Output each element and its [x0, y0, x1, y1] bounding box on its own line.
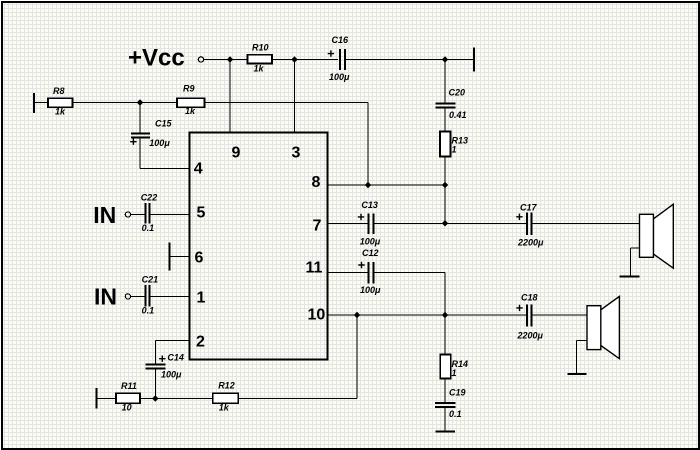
svg-text:0.1: 0.1: [449, 409, 462, 419]
svg-text:0.41: 0.41: [449, 110, 467, 120]
svg-text:10: 10: [122, 402, 132, 412]
svg-text:1k: 1k: [185, 106, 196, 116]
svg-text:100μ: 100μ: [161, 369, 182, 379]
svg-text:1: 1: [452, 145, 457, 155]
svg-text:C15: C15: [155, 119, 173, 129]
svg-text:C12: C12: [362, 248, 379, 258]
svg-text:1: 1: [452, 368, 457, 378]
svg-text:100μ: 100μ: [149, 138, 170, 148]
svg-text:3: 3: [292, 144, 301, 161]
svg-text:R12: R12: [218, 381, 235, 391]
svg-text:C19: C19: [449, 388, 466, 398]
svg-text:C21: C21: [142, 275, 159, 285]
svg-text:0.1: 0.1: [142, 306, 155, 316]
svg-text:R10: R10: [252, 42, 269, 52]
svg-text:100μ: 100μ: [329, 72, 350, 82]
svg-text:R8: R8: [53, 86, 65, 96]
svg-text:IN: IN: [93, 202, 116, 228]
svg-text:C13: C13: [361, 200, 378, 210]
svg-text:R11: R11: [121, 381, 137, 391]
svg-text:1k: 1k: [254, 64, 265, 74]
svg-text:C18: C18: [521, 292, 538, 302]
svg-text:C14: C14: [167, 353, 184, 363]
svg-text:2200μ: 2200μ: [517, 331, 544, 341]
svg-text:100μ: 100μ: [360, 237, 381, 247]
svg-text:0.1: 0.1: [142, 223, 155, 233]
svg-text:+Vcc: +Vcc: [128, 45, 185, 72]
svg-text:1k: 1k: [55, 107, 66, 117]
svg-text:2: 2: [196, 334, 205, 351]
svg-text:4: 4: [194, 161, 203, 178]
svg-text:5: 5: [197, 204, 206, 221]
svg-text:C17: C17: [520, 202, 538, 212]
svg-text:2200μ: 2200μ: [517, 238, 544, 248]
svg-text:10: 10: [308, 307, 326, 324]
svg-text:R9: R9: [183, 83, 195, 93]
svg-text:7: 7: [313, 218, 322, 235]
svg-text:9: 9: [232, 144, 241, 161]
svg-text:1: 1: [197, 289, 206, 306]
svg-text:1k: 1k: [219, 402, 230, 412]
svg-text:C22: C22: [141, 192, 158, 202]
svg-text:IN: IN: [94, 283, 117, 309]
svg-text:100μ: 100μ: [360, 285, 381, 295]
svg-text:C20: C20: [449, 87, 466, 97]
svg-text:6: 6: [195, 249, 204, 266]
svg-text:11: 11: [306, 260, 323, 277]
svg-text:8: 8: [312, 174, 321, 191]
svg-text:C16: C16: [332, 35, 350, 45]
